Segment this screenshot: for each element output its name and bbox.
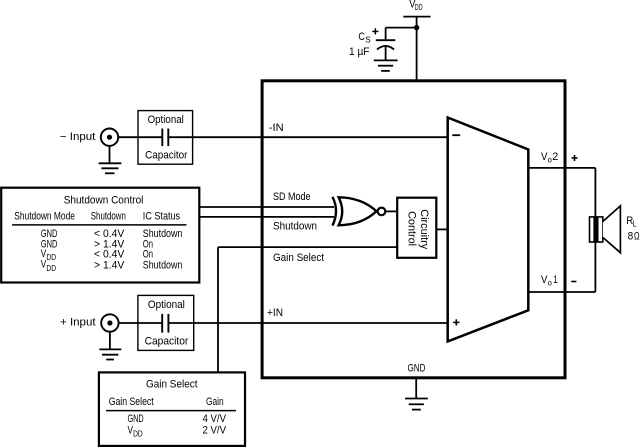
- wire VDD to CS: [386, 27, 417, 29]
- wire +input to +IN: [118, 322, 162, 324]
- svg-text:Gain Select: Gain Select: [109, 396, 154, 408]
- svg-text:Capacitor: Capacitor: [145, 150, 188, 162]
- svg-text:+ Input: + Input: [60, 317, 96, 329]
- wire Vo1: [528, 291, 595, 293]
- capacitor C1 plates (top): [162, 129, 168, 147]
- optional capacitor box (top): [138, 111, 193, 165]
- ground (CS): [374, 59, 398, 61]
- svg-text:Optional: Optional: [148, 299, 185, 311]
- svg-text:DD: DD: [46, 252, 56, 262]
- wire SD Mode: [199, 206, 334, 208]
- shutdown control table box: [1, 188, 199, 283]
- svg-text:Shutdown Mode: Shutdown Mode: [14, 210, 75, 222]
- connector (+ input): [101, 314, 118, 331]
- svg-text:1 µF: 1 µF: [349, 46, 370, 58]
- svg-text:2: 2: [552, 151, 558, 163]
- XNOR gate U1 bubble: [378, 208, 386, 216]
- svg-text:L: L: [633, 218, 637, 228]
- svg-text:Shutdown: Shutdown: [273, 221, 317, 233]
- wire inside bottom box: [138, 322, 194, 324]
- svg-text:IC Status: IC Status: [143, 210, 181, 222]
- svg-text:− Input: − Input: [60, 131, 96, 143]
- svg-text:Gain Select: Gain Select: [146, 378, 198, 390]
- wire CS to ground: [385, 47, 387, 61]
- junction dot VDD: [414, 25, 419, 30]
- amplifier plus input mark: [453, 319, 459, 325]
- svg-text:C: C: [358, 31, 365, 43]
- IC boundary: [262, 81, 565, 378]
- amplifier minus input mark: [452, 134, 460, 136]
- wire speaker: [594, 168, 596, 292]
- control circuitry box: [397, 198, 436, 258]
- polarity plus (Vo2): [572, 155, 578, 161]
- wire Vo2: [528, 167, 595, 169]
- VDD supply rail: [403, 16, 430, 18]
- svg-text:+IN: +IN: [267, 307, 283, 319]
- wire gate to control: [386, 210, 397, 212]
- svg-text:DD: DD: [415, 2, 423, 12]
- svg-text:Gain: Gain: [206, 396, 224, 408]
- capacitor C2 plates (bottom): [162, 314, 168, 333]
- CS polarity plus: [372, 28, 378, 34]
- speaker RL driver: [590, 217, 603, 242]
- svg-text:8: 8: [628, 230, 634, 242]
- capacitor CS curved plate: [377, 46, 394, 50]
- wire control to amp: [436, 228, 447, 230]
- svg-text:2 V/V: 2 V/V: [203, 424, 227, 436]
- wire CS stem: [385, 28, 387, 41]
- gain select table rule: [106, 410, 236, 412]
- ground (- input): [109, 146, 111, 164]
- svg-text:o: o: [548, 277, 552, 287]
- svg-text:GND: GND: [408, 362, 426, 374]
- svg-text:Ω: Ω: [634, 230, 640, 242]
- svg-text:Optional: Optional: [148, 114, 184, 126]
- svg-text:Capacitor: Capacitor: [145, 335, 189, 347]
- wire Gain Select to table: [217, 247, 219, 372]
- svg-text:Shutdown: Shutdown: [91, 210, 126, 222]
- connector (- input): [101, 129, 118, 146]
- svg-text:DD: DD: [46, 263, 56, 273]
- wire -input to -IN: [118, 136, 163, 138]
- svg-text:Shutdown Control: Shutdown Control: [64, 194, 144, 206]
- speaker RL horn: [603, 206, 621, 253]
- wire Shutdown: [199, 216, 334, 218]
- svg-text:Gain Select: Gain Select: [273, 252, 324, 264]
- amplifier A1: [448, 118, 529, 342]
- svg-text:-IN: -IN: [269, 122, 284, 134]
- wire VDD to IC: [416, 17, 418, 81]
- svg-text:SD Mode: SD Mode: [273, 191, 311, 203]
- XNOR gate U1 input curve: [332, 197, 336, 226]
- svg-text:Shutdown: Shutdown: [143, 259, 183, 271]
- svg-text:Circuitry: Circuitry: [418, 209, 430, 250]
- shutdown control table rule: [12, 224, 186, 226]
- wire Gain Select: [218, 246, 397, 248]
- svg-text:4 V/V: 4 V/V: [203, 413, 227, 425]
- ground (IC GND): [405, 398, 428, 400]
- XNOR gate U1 body: [339, 197, 377, 225]
- optional capacitor box (bottom): [138, 295, 194, 350]
- capacitor CS top plate: [376, 39, 396, 41]
- ground (+ input): [109, 331, 111, 349]
- svg-text:S: S: [365, 35, 371, 45]
- svg-text:GND: GND: [128, 413, 144, 425]
- gain select table box: [99, 372, 245, 446]
- svg-text:DD: DD: [133, 428, 143, 438]
- svg-text:Control: Control: [405, 211, 417, 246]
- wire IC to ground: [415, 378, 417, 399]
- svg-text:> 1.4V: > 1.4V: [94, 259, 125, 271]
- polarity minus (Vo1): [571, 281, 576, 283]
- wire inside top box: [138, 136, 193, 138]
- svg-text:1: 1: [553, 274, 558, 286]
